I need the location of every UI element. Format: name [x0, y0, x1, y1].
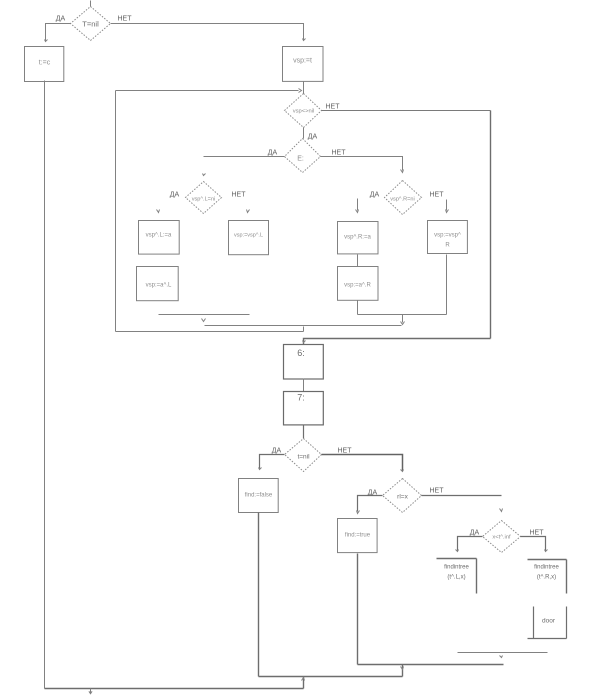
svg-text:vsp:=a^.R: vsp:=a^.R [344, 283, 371, 289]
left long vertical from t:=c [44, 81, 46, 689]
svg-text:T=nil: T=nil [82, 20, 99, 29]
arrowhead above D6 [500, 509, 503, 512]
wire DA from D3 to left sub-branch [204, 156, 285, 158]
svg-text:ДА: ДА [56, 16, 66, 23]
svg-text:7:: 7: [297, 393, 305, 403]
arrowhead into box R1 [356, 210, 359, 213]
wire NET exit from D2 right [322, 110, 491, 112]
process box find:=true [338, 519, 378, 553]
box FL findintree(t^.L,x) top edge [437, 558, 477, 560]
arrowhead above D4R [401, 170, 404, 173]
svg-text:vsp^.R=ni: vsp^.R=ni [390, 197, 415, 203]
wire find:=false column [258, 513, 260, 677]
process box R3 vsp:=vsp^.R [428, 221, 468, 254]
wire box7 to D4 [303, 425, 305, 439]
process box L3 vsp:=vsp^.L [229, 221, 269, 255]
bottom line [45, 688, 304, 690]
line E right convergence [358, 314, 447, 316]
arrowhead into vsp:=t [303, 39, 306, 41]
wire NET from D3 to right sub-branch [321, 157, 403, 171]
box door bottom edge [528, 638, 567, 640]
wire vsp:=t to D2 [303, 82, 305, 94]
line F call convergence [458, 652, 548, 654]
process box 7 [284, 392, 324, 425]
wire find:=true column [357, 554, 359, 665]
svg-text:vsp:=vsp^: vsp:=vsp^ [434, 233, 461, 239]
arrowhead into box L3 [247, 210, 250, 213]
line A left convergence [159, 314, 250, 316]
line H [259, 676, 403, 678]
svg-text:find:=false: find:=false [245, 493, 273, 499]
wire R1 to R2 [357, 255, 359, 267]
stub line C up to line B [303, 327, 305, 332]
svg-text:НЕТ: НЕТ [530, 530, 545, 537]
wire DA from D4 to find:=false [260, 455, 285, 469]
wire D2 to D3 [303, 128, 305, 139]
line B loop convergence [205, 325, 402, 327]
svg-text:ДА: ДА [268, 150, 278, 157]
wire NET from D6 to FR call [521, 537, 546, 551]
wire DA from D1 to box t:=c [46, 24, 71, 41]
svg-text:НЕТ: НЕТ [332, 150, 347, 157]
svg-text:vsp:=a^.L: vsp:=a^.L [146, 283, 172, 289]
svg-text:НЕТ: НЕТ [338, 448, 353, 455]
svg-text:vsp^.R:=a: vsp^.R:=a [344, 235, 371, 241]
box door right edge [566, 607, 568, 639]
svg-text:t=nil: t=nil [297, 454, 310, 461]
svg-text:(t^.R,x): (t^.R,x) [537, 575, 556, 581]
arrowhead into FL call [456, 550, 459, 552]
stub bottom line up to line H [303, 677, 305, 689]
drop line E to line B [402, 315, 404, 323]
arrowhead line A to line B [202, 319, 206, 322]
loopback top line [116, 90, 299, 92]
svg-text:findintree: findintree [444, 565, 469, 571]
svg-text:6:: 6: [297, 348, 305, 358]
svg-text:(t^.L,x): (t^.L,x) [447, 575, 465, 581]
line G [358, 664, 504, 666]
svg-text:ДА: ДА [470, 530, 480, 537]
exit stub with arrowhead [90, 689, 92, 694]
decision D5 rl=x [383, 479, 422, 513]
decision D4 t=nil [285, 439, 322, 472]
decision D1 T=nil [71, 7, 111, 41]
process box L2 vsp:=a^.L [137, 267, 179, 301]
wire NET from D4 to D5 [322, 455, 403, 471]
decision D3 E [285, 139, 321, 173]
process box t:=c [25, 47, 64, 82]
arrowhead into t:=c [45, 40, 48, 42]
svg-text:R: R [445, 243, 450, 249]
arrowhead up into line H [302, 678, 305, 681]
arrowhead above D5 [401, 470, 404, 472]
process box vsp:=t [283, 47, 324, 82]
stub into box R3 [446, 200, 448, 211]
svg-text:НЕТ: НЕТ [232, 192, 247, 199]
box FL right edge [476, 559, 478, 594]
svg-text:НЕТ: НЕТ [118, 16, 133, 23]
box FR findintree(t^.R,x) top edge [528, 559, 567, 561]
wire box6 to box7 [303, 379, 305, 392]
svg-text:ДА: ДА [368, 490, 378, 497]
wire R2 bottom to line E [357, 301, 359, 315]
arrowhead into box 6 [303, 341, 306, 343]
svg-text:НЕТ: НЕТ [430, 488, 445, 495]
svg-text:E:: E: [297, 156, 304, 163]
line D exit bottom [304, 339, 491, 345]
wire NET from D5 toward D6 [422, 495, 502, 497]
wire top entry [90, 1, 92, 7]
arrowhead into box L1 [157, 210, 160, 213]
arrowhead into FR call [545, 550, 548, 552]
process box find:=false [239, 479, 279, 513]
arrowhead into find:=true [357, 511, 360, 514]
wire NET from D1 to box vsp:=t [111, 24, 304, 40]
arrowhead into box R3 [446, 210, 449, 213]
svg-text:find:=true: find:=true [345, 533, 371, 539]
svg-text:door: door [542, 618, 556, 625]
svg-text:vsp<>nil: vsp<>nil [293, 109, 315, 115]
wire DA from D6 to FL call [458, 537, 483, 551]
decision D4R vsp^.R=nil [385, 181, 422, 215]
arrowhead above D4L [203, 174, 206, 176]
stub into box R1 [357, 199, 359, 211]
svg-text:ДА: ДА [170, 192, 180, 199]
svg-text:vsp^.L=ni: vsp^.L=ni [192, 197, 216, 203]
svg-text:vsp:=t: vsp:=t [293, 58, 312, 65]
process box R2 vsp:=a^.R [338, 267, 379, 301]
svg-text:vsp^.L:=a: vsp^.L:=a [146, 233, 172, 239]
wire DA from D5 to find:=true [358, 496, 383, 512]
svg-text:rl=x: rl=x [397, 494, 408, 501]
process box L1 vsp^.L:=a [139, 221, 180, 255]
arrowhead on drop [401, 667, 404, 670]
svg-text:ДА: ДА [272, 448, 282, 455]
drop line G to line H [402, 665, 404, 677]
box door left edge [533, 607, 535, 639]
arrowhead drop into line B [401, 322, 405, 325]
box FR right edge [566, 560, 568, 594]
svg-text:ДА: ДА [308, 134, 318, 141]
loopback left line [115, 91, 117, 332]
wire R3 bottom to line E [446, 255, 448, 315]
svg-text:НЕТ: НЕТ [430, 192, 445, 199]
process box 6 [284, 345, 324, 380]
svg-text:НЕТ: НЕТ [326, 104, 341, 111]
arrowhead line F to line G [500, 656, 503, 658]
svg-text:findintree: findintree [534, 565, 559, 571]
svg-text:ДА: ДА [370, 192, 380, 199]
svg-text:vsp:=vsp^.L: vsp:=vsp^.L [234, 233, 263, 239]
process box R1 vsp^.R:=a [338, 222, 379, 254]
arrowhead loopback into junction [299, 89, 302, 93]
svg-text:x<t^.inf: x<t^.inf [492, 535, 511, 541]
svg-text:t:=c: t:=c [39, 60, 51, 67]
arrowhead into find:=false [259, 468, 262, 470]
decision D2 vsp<>nil [285, 94, 322, 128]
decision D6 x<t^.inf [483, 521, 521, 553]
decision D4L vsp^.L=nil [186, 182, 222, 214]
loopback bottom line C [116, 331, 304, 333]
